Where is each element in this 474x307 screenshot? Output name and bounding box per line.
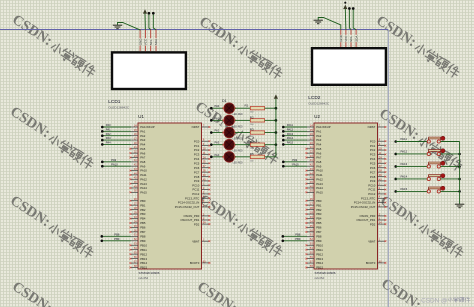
svg-text:PB7: PB7 xyxy=(140,230,146,234)
svg-text:57: 57 xyxy=(134,259,137,263)
svg-text:50: 50 xyxy=(134,189,137,193)
svg-text:60: 60 xyxy=(203,259,206,263)
svg-text:R4: R4 xyxy=(250,140,254,144)
svg-text:PA0: PA0 xyxy=(106,123,111,127)
svg-text:54: 54 xyxy=(134,246,137,250)
svg-text:51: 51 xyxy=(134,233,137,237)
svg-text:PB10: PB10 xyxy=(316,243,323,247)
svg-text:50: 50 xyxy=(310,189,313,193)
svg-text:56: 56 xyxy=(134,255,137,259)
svg-text:PC5: PC5 xyxy=(370,161,376,165)
svg-text:15: 15 xyxy=(134,128,137,132)
svg-text:PA4: PA4 xyxy=(215,153,220,157)
svg-text:16: 16 xyxy=(310,132,313,136)
svg-text:PB0: PB0 xyxy=(316,199,322,203)
svg-text:36: 36 xyxy=(310,228,313,232)
svg-text:PA13: PA13 xyxy=(287,132,294,136)
svg-text:51: 51 xyxy=(310,233,313,237)
svg-text:R3: R3 xyxy=(250,128,254,132)
svg-text:PC2: PC2 xyxy=(194,148,200,152)
svg-text:·CSDN @: ·CSDN @ xyxy=(419,298,448,305)
svg-text:VCC: VCC xyxy=(144,38,148,45)
svg-text:R2: R2 xyxy=(250,115,254,119)
svg-text:PA12: PA12 xyxy=(287,127,294,131)
svg-text:35: 35 xyxy=(310,224,313,228)
svg-text:PA13: PA13 xyxy=(401,162,408,166)
svg-text:60: 60 xyxy=(379,259,382,263)
svg-text:LED-RED: LED-RED xyxy=(233,163,243,165)
svg-text:PB3: PB3 xyxy=(140,212,146,216)
svg-text:PC1: PC1 xyxy=(370,144,376,148)
svg-text:PC7: PC7 xyxy=(370,170,376,174)
svg-text:38: 38 xyxy=(203,169,206,173)
svg-text:17: 17 xyxy=(310,136,313,140)
svg-text:PA12: PA12 xyxy=(401,149,408,153)
svg-text:SCL: SCL xyxy=(149,39,153,45)
svg-text:41: 41 xyxy=(134,158,137,162)
svg-text:GND: GND xyxy=(138,38,142,46)
svg-text:PA11: PA11 xyxy=(401,137,408,141)
svg-text:PA15: PA15 xyxy=(287,141,294,145)
svg-text:SDA: SDA xyxy=(154,39,158,45)
svg-text:25: 25 xyxy=(203,160,206,164)
svg-text:40: 40 xyxy=(203,177,206,181)
svg-text:36: 36 xyxy=(134,228,137,232)
svg-text:PB6: PB6 xyxy=(316,226,322,230)
svg-text:VCC: VCC xyxy=(344,35,348,42)
svg-text:LED-RED: LED-RED xyxy=(233,151,243,153)
svg-text:41: 41 xyxy=(310,158,313,162)
svg-text:PD2: PD2 xyxy=(194,222,200,226)
svg-text:LCD2: LCD2 xyxy=(308,95,321,101)
svg-text:PB15: PB15 xyxy=(316,266,323,270)
svg-text:PA9: PA9 xyxy=(292,158,297,162)
svg-text:VBAT: VBAT xyxy=(192,239,199,243)
svg-text:PC6: PC6 xyxy=(194,166,200,170)
svg-text:44: 44 xyxy=(134,171,137,175)
svg-text:PB4: PB4 xyxy=(140,217,146,221)
svg-text:PB3: PB3 xyxy=(316,212,322,216)
svg-text:PA15: PA15 xyxy=(140,190,147,194)
svg-text:LED-RED: LED-RED xyxy=(233,126,243,128)
svg-text:24: 24 xyxy=(203,155,206,159)
svg-text:PA9: PA9 xyxy=(111,158,116,162)
svg-text:39: 39 xyxy=(203,173,206,177)
svg-text:46: 46 xyxy=(134,180,137,184)
svg-text:PB11: PB11 xyxy=(316,248,323,252)
svg-text:PA3: PA3 xyxy=(106,136,111,140)
svg-text:58: 58 xyxy=(134,264,137,268)
svg-text:27: 27 xyxy=(134,202,137,206)
svg-text:PC1: PC1 xyxy=(194,144,200,148)
svg-text:10: 10 xyxy=(379,146,382,150)
svg-text:OLED128642C: OLED128642C xyxy=(108,106,130,110)
svg-text:29: 29 xyxy=(310,210,313,214)
svg-text:34: 34 xyxy=(134,219,137,223)
svg-text:PC4: PC4 xyxy=(370,157,376,161)
svg-text:42: 42 xyxy=(134,163,137,167)
svg-text:PB5: PB5 xyxy=(316,221,322,225)
svg-text:OLED128642C: OLED128642C xyxy=(308,102,330,106)
svg-text:R1: R1 xyxy=(245,103,249,107)
svg-text:28: 28 xyxy=(310,206,313,210)
svg-text:26: 26 xyxy=(134,197,137,201)
svg-text:38: 38 xyxy=(379,169,382,173)
svg-text:PB4: PB4 xyxy=(316,217,322,221)
svg-text:15: 15 xyxy=(310,128,313,132)
svg-text:49: 49 xyxy=(134,184,137,188)
svg-text:PB9: PB9 xyxy=(114,237,120,241)
svg-text:PC2: PC2 xyxy=(370,148,376,152)
svg-text:PA4: PA4 xyxy=(106,141,111,145)
svg-text:53: 53 xyxy=(134,242,137,246)
svg-text:PB12: PB12 xyxy=(316,252,323,256)
svg-text:PC4: PC4 xyxy=(194,157,200,161)
svg-text:PC7: PC7 xyxy=(194,170,200,174)
svg-text:PA11: PA11 xyxy=(287,123,294,127)
svg-text:PB13: PB13 xyxy=(316,257,323,261)
svg-text:33: 33 xyxy=(134,215,137,219)
svg-text:U2: U2 xyxy=(314,114,320,119)
svg-text:54: 54 xyxy=(203,221,206,225)
svg-text:PC15-OSC32_OUT: PC15-OSC32_OUT xyxy=(351,205,376,209)
svg-text:PB1: PB1 xyxy=(316,203,322,207)
svg-text:PB2: PB2 xyxy=(140,208,146,212)
svg-text:PA14: PA14 xyxy=(287,136,294,140)
svg-text:55: 55 xyxy=(134,251,137,255)
svg-text:PA15: PA15 xyxy=(316,190,323,194)
svg-text:SDA: SDA xyxy=(354,36,358,42)
svg-text:PC3: PC3 xyxy=(370,153,376,157)
svg-text:25: 25 xyxy=(379,160,382,164)
svg-text:10: 10 xyxy=(203,146,206,150)
svg-text:PB5: PB5 xyxy=(140,221,146,225)
svg-text:PC0: PC0 xyxy=(370,139,376,143)
svg-text:PB9: PB9 xyxy=(316,239,322,243)
svg-text:PB9: PB9 xyxy=(140,239,146,243)
svg-text:22: 22 xyxy=(134,150,137,154)
svg-text:PA15: PA15 xyxy=(401,187,408,191)
svg-text:44: 44 xyxy=(310,171,313,175)
svg-text:rab-05d: rab-05d xyxy=(315,276,325,280)
svg-text:LCD1: LCD1 xyxy=(108,99,121,105)
svg-text:PA1: PA1 xyxy=(215,116,220,120)
svg-text:PB11: PB11 xyxy=(140,248,147,252)
svg-text:PA10: PA10 xyxy=(292,162,299,166)
svg-text:28: 28 xyxy=(134,206,137,210)
svg-text:BOOT0: BOOT0 xyxy=(366,261,376,265)
svg-text:LED-RED: LED-RED xyxy=(233,138,243,140)
svg-text:PB8: PB8 xyxy=(114,232,120,236)
svg-text:20: 20 xyxy=(134,141,137,145)
svg-text:33: 33 xyxy=(310,215,313,219)
svg-text:21: 21 xyxy=(134,145,137,149)
svg-text:NRST: NRST xyxy=(368,125,376,129)
svg-text:PA3: PA3 xyxy=(215,141,220,145)
svg-text:55: 55 xyxy=(310,251,313,255)
svg-text:52: 52 xyxy=(134,237,137,241)
svg-text:45: 45 xyxy=(134,176,137,180)
svg-text:17: 17 xyxy=(134,136,137,140)
svg-text:PB9: PB9 xyxy=(295,237,301,241)
svg-text:PC6: PC6 xyxy=(370,166,376,170)
svg-text:PC3: PC3 xyxy=(194,153,200,157)
svg-text:PC5: PC5 xyxy=(194,161,200,165)
svg-text:35: 35 xyxy=(134,224,137,228)
svg-text:NRST: NRST xyxy=(192,125,200,129)
svg-text:34: 34 xyxy=(310,219,313,223)
svg-text:LED-RED: LED-RED xyxy=(233,114,243,116)
svg-text:PA2: PA2 xyxy=(106,132,111,136)
svg-text:52: 52 xyxy=(310,237,313,241)
svg-text:42: 42 xyxy=(310,163,313,167)
svg-text:14: 14 xyxy=(310,123,313,127)
svg-text:PC0: PC0 xyxy=(194,139,200,143)
svg-text:PB8: PB8 xyxy=(295,232,301,236)
svg-text:PD2: PD2 xyxy=(370,222,376,226)
svg-text:29: 29 xyxy=(134,210,137,214)
svg-text:U1: U1 xyxy=(138,114,144,119)
svg-text:PB7: PB7 xyxy=(316,230,322,234)
svg-text:22: 22 xyxy=(310,150,313,154)
svg-text:46: 46 xyxy=(310,180,313,184)
svg-text:PA10: PA10 xyxy=(111,162,118,166)
svg-text:PB10: PB10 xyxy=(140,243,147,247)
svg-text:SCL: SCL xyxy=(349,36,353,42)
svg-text:57: 57 xyxy=(310,259,313,263)
svg-text:16: 16 xyxy=(134,132,137,136)
svg-text:VBAT: VBAT xyxy=(368,239,375,243)
svg-text:56: 56 xyxy=(310,255,313,259)
svg-text:PB12: PB12 xyxy=(140,252,147,256)
svg-text:R5: R5 xyxy=(250,152,254,156)
svg-text:45: 45 xyxy=(310,176,313,180)
svg-text:PA0: PA0 xyxy=(215,104,220,108)
svg-text:23: 23 xyxy=(310,154,313,158)
svg-text:PA1: PA1 xyxy=(106,127,111,131)
svg-text:STM32F103R6: STM32F103R6 xyxy=(139,271,160,275)
svg-text:PB14: PB14 xyxy=(140,261,147,265)
svg-text:37: 37 xyxy=(379,164,382,168)
svg-text:PB14: PB14 xyxy=(316,261,323,265)
svg-text:24: 24 xyxy=(379,155,382,159)
svg-text:PB15: PB15 xyxy=(140,266,147,270)
svg-text:39: 39 xyxy=(379,173,382,177)
svg-text:43: 43 xyxy=(310,167,313,171)
svg-text:26: 26 xyxy=(310,197,313,201)
svg-text:27: 27 xyxy=(310,202,313,206)
svg-text:D1: D1 xyxy=(222,99,227,103)
svg-text:21: 21 xyxy=(310,145,313,149)
svg-text:PB2: PB2 xyxy=(316,208,322,212)
svg-text:PB8: PB8 xyxy=(316,234,322,238)
svg-text:53: 53 xyxy=(310,242,313,246)
svg-text:58: 58 xyxy=(310,264,313,268)
svg-text:PB1: PB1 xyxy=(140,203,146,207)
svg-text:PB13: PB13 xyxy=(140,257,147,261)
svg-text:PB0: PB0 xyxy=(140,199,146,203)
svg-text:PA2: PA2 xyxy=(215,129,220,133)
svg-text:54: 54 xyxy=(379,221,382,225)
svg-text:PB8: PB8 xyxy=(140,234,146,238)
svg-text:49: 49 xyxy=(310,184,313,188)
svg-text:STM32F103R6: STM32F103R6 xyxy=(315,271,336,275)
svg-text:rab-05d: rab-05d xyxy=(139,276,149,280)
svg-text:GND: GND xyxy=(339,34,343,42)
svg-text:54: 54 xyxy=(310,246,313,250)
svg-text:PC15-OSC32_OUT: PC15-OSC32_OUT xyxy=(175,205,200,209)
svg-text:PB6: PB6 xyxy=(140,226,146,230)
svg-text:23: 23 xyxy=(134,154,137,158)
svg-text:BOOT0: BOOT0 xyxy=(190,261,200,265)
svg-text:14: 14 xyxy=(134,123,137,127)
svg-text:43: 43 xyxy=(134,167,137,171)
svg-text:20: 20 xyxy=(310,141,313,145)
svg-text:40: 40 xyxy=(379,177,382,181)
svg-text:37: 37 xyxy=(203,164,206,168)
svg-text:PA14: PA14 xyxy=(401,174,408,178)
